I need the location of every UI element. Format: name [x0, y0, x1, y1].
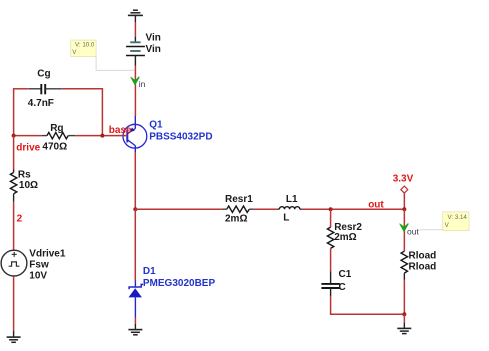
ground (below Rload): [397, 323, 411, 334]
junction: filter node (Resr2 tap): [329, 207, 333, 211]
junction: base-RC node (right): [100, 134, 104, 138]
resistor Rg 470 ohm: [41, 132, 75, 138]
svg-text:3.3V: 3.3V: [393, 173, 414, 184]
wire: Resr2 junction to out node: [331, 208, 405, 210]
junction: drive node (left): [12, 134, 16, 138]
wire: Rload to bottom junction: [403, 280, 405, 315]
diode D1 PMEG3020BEP (schottky): [129, 281, 144, 318]
svg-text:Rg: Rg: [50, 123, 63, 134]
svg-text:Rload: Rload: [409, 251, 437, 262]
wire: L1 to Resr2 junction: [302, 208, 330, 210]
wire: drive rail to Cg left: [14, 88, 29, 90]
capacitor C1: [321, 271, 340, 296]
wire: Q1 collector down to switch node: [134, 152, 136, 209]
wire: junction to ground: [403, 314, 405, 323]
svg-text:Rs: Rs: [18, 170, 31, 181]
wire: probe in to Q1 emitter pin: [134, 79, 136, 116]
junction: switch node (Q1/D1/L bus): [133, 207, 137, 211]
svg-text:Fsw: Fsw: [29, 260, 49, 271]
wire: switch node to Resr1: [135, 208, 222, 210]
svg-text:Vin: Vin: [146, 33, 161, 44]
wire: Vdrive1 to ground: [13, 276, 15, 331]
wire: bottom return bus: [330, 313, 404, 315]
resistor Resr1 2m ohm: [223, 206, 254, 212]
svg-text:D1: D1: [143, 266, 156, 277]
svg-text:2mΩ: 2mΩ: [334, 232, 356, 243]
battery V1 (Vin): [126, 37, 145, 66]
ground (top, above V1): [128, 10, 143, 22]
annotation leader line for probe in: [96, 57, 134, 71]
junction: out node: [402, 207, 406, 211]
wire: Cg right to right rail corner: [62, 88, 103, 90]
svg-text:470Ω: 470Ω: [42, 142, 67, 153]
svg-text:2: 2: [17, 214, 23, 225]
wire: Resr1 to L1: [254, 208, 277, 210]
svg-text:base: base: [109, 125, 132, 136]
wire: battery V1 to probe in: [134, 66, 136, 80]
wire: Rg/Cg to Q1 base: [102, 135, 127, 137]
svg-text:Vdrive1: Vdrive1: [29, 249, 66, 260]
wire: out node down to Rload: [403, 209, 405, 251]
svg-text:PBSS4032PD: PBSS4032PD: [149, 132, 212, 143]
node 3.3V (diamond terminal): [401, 186, 408, 193]
resistor Rload: [401, 251, 407, 279]
wire: 3.3V terminal to out junction: [403, 193, 405, 209]
probe out (green arrow): [400, 224, 409, 232]
wire: left rail top (drive node down): [13, 88, 15, 136]
svg-text:2mΩ: 2mΩ: [225, 214, 247, 225]
resistor Resr2 2m ohm: [327, 227, 333, 248]
wire: Rg right to base junction: [75, 135, 102, 137]
ground (below D1): [128, 324, 142, 335]
wire: D1 anode to ground: [134, 318, 136, 325]
svg-text:drive: drive: [16, 143, 40, 154]
svg-text:4.7nF: 4.7nF: [28, 98, 54, 109]
annotation box V:3.14 V (probe out): [443, 212, 469, 231]
svg-text:Cg: Cg: [37, 69, 50, 80]
inductor L1: [277, 207, 303, 210]
wire: C1 bottom to ground bus: [330, 296, 332, 314]
svg-text:C: C: [339, 282, 346, 293]
wire: Rs to Vdrive1: [13, 202, 15, 250]
resistor Rs 10 ohm: [10, 170, 16, 202]
wire: drive node to Rg left: [14, 135, 42, 137]
wire: junction down to Resr2: [330, 209, 332, 227]
wire: switch node down to D1: [134, 209, 136, 280]
ground (below Vdrive1): [7, 331, 21, 342]
wire: drive node down to Rs: [13, 136, 15, 170]
source Vdrive1 (square wave): [1, 250, 27, 276]
probe in (green arrow): [131, 77, 140, 85]
svg-text:L1: L1: [286, 194, 298, 205]
wire: top ground to battery V1: [134, 22, 136, 37]
wire: right rail of RC loop: [101, 88, 103, 136]
svg-text:PMEG3020BEP: PMEG3020BEP: [143, 278, 216, 289]
svg-text:C1: C1: [339, 269, 352, 280]
svg-text:Rload: Rload: [409, 262, 437, 273]
svg-text:10V: 10V: [29, 271, 47, 282]
wire: Resr2 to C1: [330, 248, 332, 271]
junction: ground return node: [402, 312, 406, 316]
svg-text:Q1: Q1: [149, 119, 163, 130]
svg-text:in: in: [139, 79, 146, 89]
svg-text:L: L: [283, 212, 289, 223]
svg-text:Resr1: Resr1: [225, 194, 253, 205]
annotation box V:10.0 V (probe in): [71, 40, 96, 56]
capacitor Cg 4.7nF: [29, 84, 62, 94]
svg-text:out: out: [368, 200, 384, 211]
svg-text:out: out: [407, 227, 419, 237]
annotation leader line for probe out: [420, 229, 443, 231]
svg-text:V: 3.14: V: 3.14: [448, 214, 468, 221]
svg-text:V: 10.0: V: 10.0: [75, 42, 95, 49]
svg-text:10Ω: 10Ω: [19, 180, 38, 191]
transistor Q1 PBSS4032PD (PNP): [123, 116, 147, 152]
svg-text:Vin: Vin: [146, 44, 161, 55]
